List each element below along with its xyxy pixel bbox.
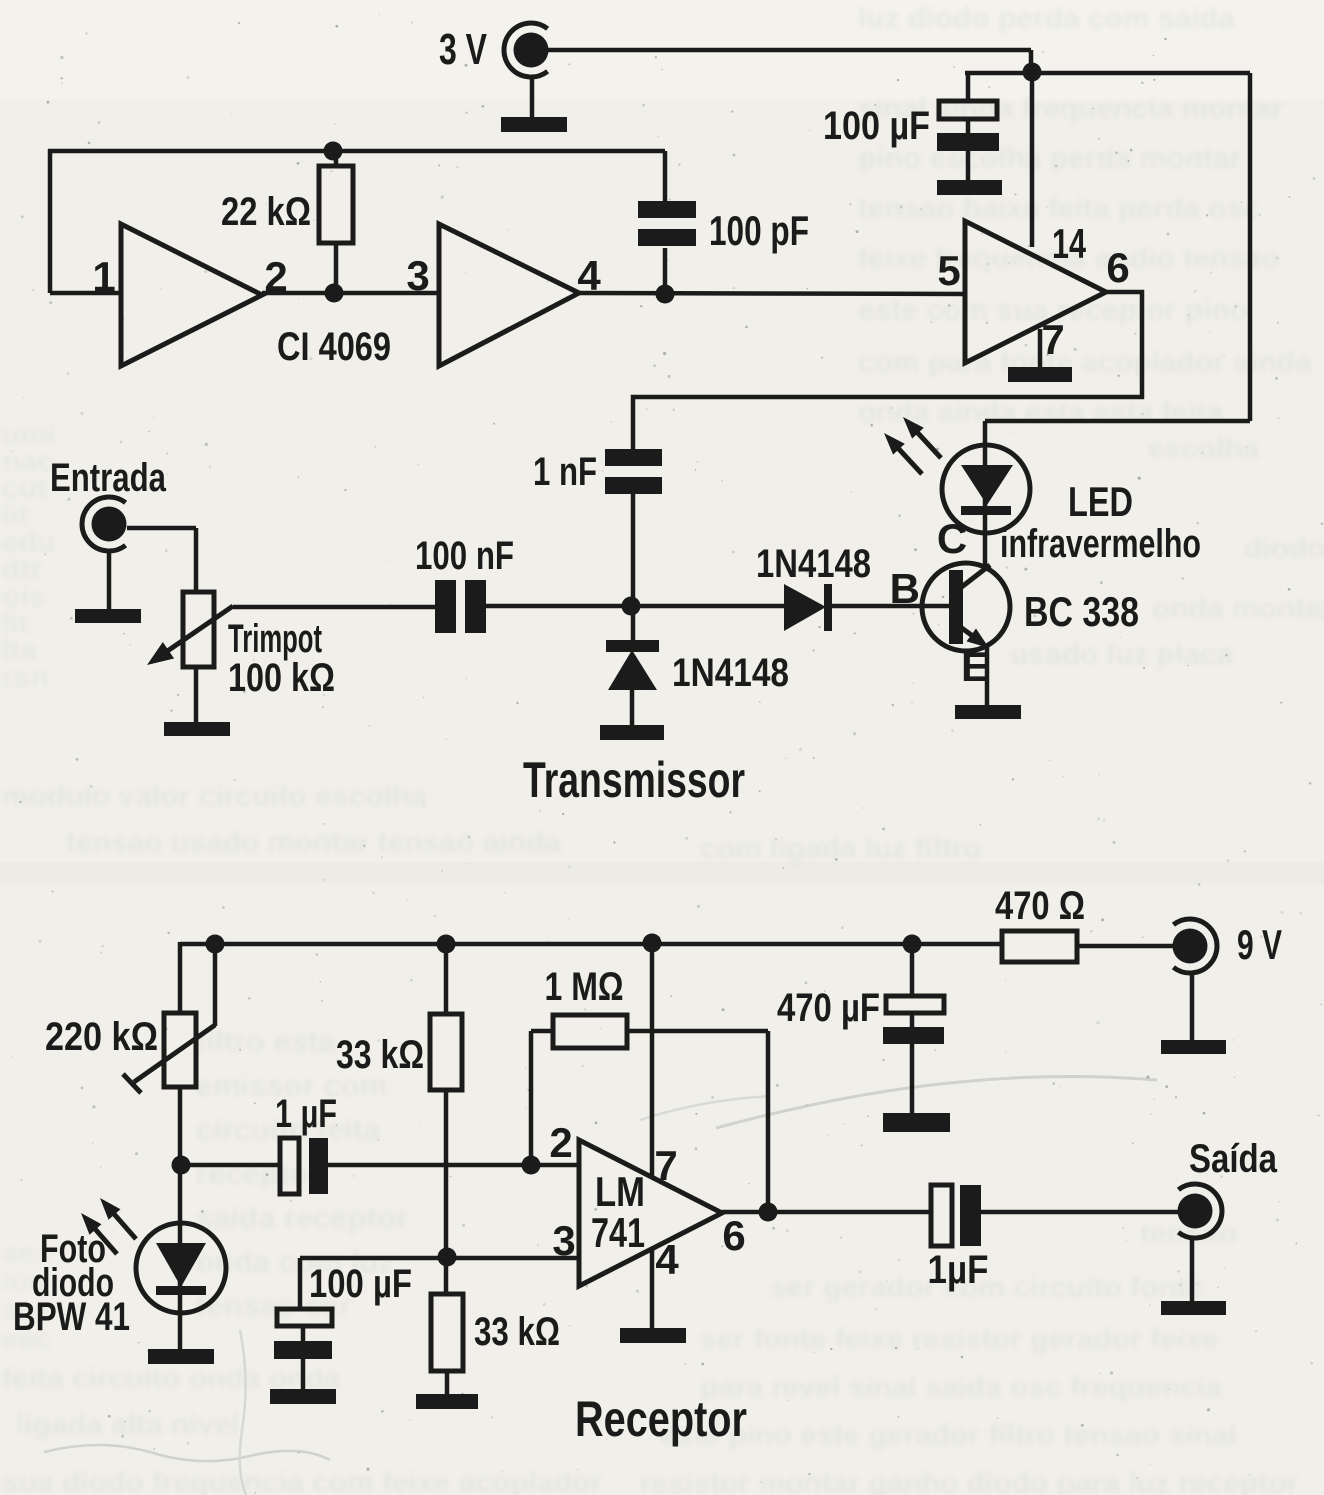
capacitor C6 100uF minus plate	[274, 1341, 332, 1359]
svg-text:luz diodo perda com saida: luz diodo perda com saida	[858, 2, 1235, 35]
svg-text:1 nF: 1 nF	[533, 450, 597, 494]
svg-text:6: 6	[1106, 244, 1129, 291]
wire C3 to node A	[631, 494, 636, 641]
svg-text:com ligada luz filtro: com ligada luz filtro	[700, 832, 982, 865]
wire Entrada ground lead	[107, 551, 112, 610]
label R4 value 33 kOhm	[474, 1310, 560, 1354]
wire C6 ground lead	[301, 1359, 306, 1390]
power connector 9V	[1173, 919, 1283, 973]
pin 5 label	[937, 247, 960, 294]
capacitor C4 100uF minus plate	[937, 133, 999, 151]
svg-text:9 V: 9 V	[1237, 921, 1282, 968]
LED D3 wire through	[983, 445, 988, 533]
svg-text:resistor montar ganho diodo pa: resistor montar ganho diodo para luz rec…	[640, 1467, 1299, 1495]
svg-text:filtro esta: filtro esta	[196, 1024, 336, 1059]
wire D2 to ground	[630, 690, 635, 726]
wire 3V to supply node	[548, 50, 1031, 73]
ground (Q1 emitter)	[955, 705, 1021, 719]
svg-text:1 MΩ: 1 MΩ	[545, 965, 624, 1009]
resistor R1 22k body	[319, 166, 353, 243]
trimpot P1 100k body	[183, 592, 214, 667]
wire Entrada to P1	[127, 528, 196, 594]
ground (P1)	[164, 722, 230, 736]
svg-text:14: 14	[1052, 220, 1086, 267]
LED D3 emission arrow 1	[903, 417, 941, 458]
LED D3 triangle	[961, 465, 1013, 505]
ground (C4)	[937, 180, 1002, 195]
caption Receptor	[575, 1391, 747, 1447]
wire R4 to ground	[445, 1371, 450, 1395]
diode D2 cathode bar	[606, 640, 659, 652]
label Q1 terminal E	[961, 643, 989, 690]
label P1 value 100 kOhm	[228, 656, 335, 700]
wire pin14 supply	[1030, 72, 1035, 247]
output connector Saida	[1178, 1137, 1278, 1238]
photodiode D4 triangle	[156, 1243, 206, 1287]
svg-text:220 kΩ: 220 kΩ	[45, 1015, 158, 1059]
wire C4 mid lead	[966, 119, 971, 134]
node photodiode junction	[172, 1156, 191, 1175]
power connector 3V	[439, 23, 549, 77]
label D1 1N4148	[756, 542, 871, 586]
label C6 value 100 uF	[309, 1262, 412, 1306]
wire C6 mid lead	[301, 1326, 306, 1342]
transistor Q1 emitter arrow	[959, 626, 989, 648]
wire oscillator top rail	[48, 149, 665, 154]
input connector Entrada	[50, 456, 167, 551]
wire pin7 supply (U2)	[650, 943, 655, 1177]
node A mixer junction	[622, 597, 641, 616]
pin 6 label (U2)	[722, 1212, 745, 1259]
label R5 value 1 MOhm	[545, 965, 624, 1009]
diode D1 1N4148 anode triangle	[784, 584, 826, 631]
ground (C6)	[270, 1389, 336, 1404]
wire rail to C2	[663, 151, 668, 204]
pin 14 label	[1052, 220, 1086, 267]
svg-text:1µF: 1µF	[928, 1248, 989, 1292]
LED D3 circle	[942, 445, 1030, 533]
wire LED anode lead	[983, 421, 988, 447]
inverter U1a CI4069	[121, 224, 262, 366]
node rail wiper junction	[206, 935, 225, 954]
capacitor C5 1uF plate B	[309, 1138, 328, 1194]
resistor R4 33k body	[431, 1294, 463, 1371]
wire U1a input feedback	[50, 149, 123, 293]
photodiode D4 circle	[136, 1223, 226, 1313]
ground (R4)	[416, 1394, 478, 1409]
capacitor C1 100nF plate B	[465, 580, 486, 633]
photodiode light arrow 1	[100, 1198, 136, 1239]
svg-text:2: 2	[549, 1119, 572, 1166]
svg-text:741: 741	[591, 1209, 645, 1256]
svg-text:sua diodo frequencia com feixe: sua diodo frequencia com feixe acoplador	[2, 1466, 602, 1495]
svg-text:infravermelho: infravermelho	[1000, 522, 1201, 566]
wire supply to C4 lead	[966, 73, 971, 103]
capacitor C2 100pF plate B	[638, 229, 696, 246]
svg-text:com para fonte acoplador ainda: com para fonte acoplador ainda	[858, 346, 1312, 379]
label R1 value 22 kOhm	[221, 190, 311, 234]
svg-text:33 kΩ: 33 kΩ	[336, 1033, 424, 1077]
ground (Saida)	[1161, 1301, 1226, 1315]
pin 6 label	[1106, 244, 1129, 291]
ground (pin 4 U2)	[620, 1328, 686, 1343]
pin 3 label (U2)	[552, 1217, 575, 1264]
svg-text:4: 4	[655, 1236, 679, 1283]
node supply junction	[1023, 63, 1042, 82]
wire rail to R2 220k	[178, 942, 183, 1015]
wire 100uF top lead	[298, 1258, 303, 1311]
wire Saida ground lead	[1190, 1238, 1195, 1302]
capacitor C7 470uF minus plate	[883, 1027, 944, 1044]
wire U1c output loop	[633, 292, 1142, 451]
wire U1b out to U1c in	[579, 293, 965, 294]
transistor Q1 collector stroke	[959, 533, 990, 589]
label C5 value 1 uF	[275, 1092, 337, 1136]
svg-text:100 pF: 100 pF	[709, 207, 809, 254]
pin 3 label	[406, 252, 429, 299]
wire C2 bottom lead	[663, 248, 668, 294]
label P1 Trimpot	[228, 617, 322, 661]
ground (C7)	[883, 1113, 950, 1132]
ground (pin 7)	[1008, 367, 1072, 382]
wire pin3 from divider	[300, 1256, 581, 1261]
svg-text:Receptor: Receptor	[575, 1391, 747, 1447]
wire supply horizontal	[965, 71, 1250, 76]
photodiode light arrow 2	[81, 1213, 117, 1254]
LED D3 cathode bar	[961, 506, 1011, 515]
wire R3 to R4	[444, 1090, 449, 1296]
svg-text:B: B	[890, 565, 920, 612]
wire C7 ground lead	[910, 1044, 915, 1114]
svg-text:ser fonte feixe resistor gerad: ser fonte feixe resistor gerador feixe	[700, 1323, 1219, 1356]
wire C4 ground lead	[966, 151, 971, 181]
svg-text:rsn: rsn	[2, 661, 49, 694]
node output junction	[759, 1203, 778, 1222]
svg-text:5: 5	[937, 247, 960, 294]
wire feedback left	[531, 1031, 555, 1165]
svg-text:diodo: diodo	[1244, 532, 1324, 565]
svg-text:CI 4069: CI 4069	[277, 325, 391, 369]
label LED infravermelho	[1000, 522, 1201, 566]
svg-text:33 kΩ: 33 kΩ	[474, 1310, 560, 1354]
capacitor C1 100nF plate A	[435, 580, 456, 633]
node rail-R1 junction	[324, 142, 343, 161]
svg-text:LED: LED	[1068, 478, 1133, 525]
svg-text:100 µF: 100 µF	[309, 1262, 412, 1306]
label C4 value 100 uF	[823, 104, 930, 148]
label Foto	[40, 1227, 106, 1271]
wire D1 to Q1 base	[832, 604, 951, 609]
svg-text:Entrada: Entrada	[50, 456, 167, 500]
label Q1 terminal C	[937, 515, 967, 562]
svg-text:tensao usado montar tensao ain: tensao usado montar tensao ainda	[66, 826, 561, 859]
svg-text:1 µF: 1 µF	[275, 1092, 337, 1136]
label U1 CI 4069	[277, 325, 391, 369]
pin 4 label (U2)	[655, 1236, 679, 1283]
wire pin4 ground lead (U2)	[650, 1249, 655, 1330]
capacitor C8 1uF plate B	[960, 1185, 981, 1246]
resistor R5 1M body	[553, 1015, 627, 1048]
svg-text:Saída: Saída	[1189, 1137, 1278, 1181]
inverter U1c CI4069	[965, 221, 1106, 363]
svg-text:1: 1	[92, 253, 115, 300]
ground (D2)	[600, 725, 664, 740]
capacitor C2 100pF plate A	[638, 201, 696, 218]
ground (3V)	[501, 117, 567, 132]
wire C5 to pin2	[328, 1163, 581, 1168]
capacitor C6 100uF plus plate	[277, 1309, 332, 1326]
svg-text:para nivel sinal saida osc fre: para nivel sinal saida osc frequencia	[700, 1371, 1222, 1404]
label Q1 terminal B	[890, 565, 920, 612]
wire node to C5	[181, 1163, 282, 1168]
wire rail to C7	[910, 944, 915, 998]
svg-text:ligada alta nivel: ligada alta nivel	[16, 1408, 239, 1441]
wire pin7 ground lead	[1038, 329, 1043, 368]
svg-text:onda montar: onda montar	[1152, 592, 1324, 625]
wire 9V ground lead	[1190, 973, 1195, 1041]
label C7 value 470 uF	[777, 986, 880, 1030]
transistor Q1 base bar	[949, 570, 963, 644]
svg-text:7: 7	[654, 1142, 677, 1189]
pin 4 label	[577, 252, 601, 299]
pin 7 label (U2)	[654, 1142, 677, 1189]
wire rail to R3	[444, 944, 449, 1016]
svg-text:Transmissor: Transmissor	[523, 752, 745, 808]
svg-text:6: 6	[722, 1212, 745, 1259]
wire R6 to 9V jack	[1077, 944, 1174, 949]
svg-text:1N4148: 1N4148	[672, 651, 789, 695]
label Q1 BC 338	[1024, 588, 1139, 635]
pin 2 label	[264, 253, 287, 300]
transistor Q1 BC338 circle	[922, 563, 1010, 651]
svg-text:100 µF: 100 µF	[823, 104, 930, 148]
svg-text:100 kΩ: 100 kΩ	[228, 656, 335, 700]
LED D3 emission arrow 2	[884, 433, 922, 474]
resistor R6 470 body	[1002, 931, 1077, 962]
pin 1 label	[92, 253, 115, 300]
label C8 value 1uF	[928, 1248, 989, 1292]
svg-text:escolha: escolha	[1148, 432, 1260, 465]
node rail pin7 junction	[643, 934, 662, 953]
wire Q1 emitter to ground	[985, 646, 990, 706]
wire P1 bottom to ground	[194, 667, 199, 723]
svg-text:3 V: 3 V	[439, 25, 487, 74]
svg-text:saida receptor: saida receptor	[196, 1200, 408, 1235]
svg-text:usado luz placa: usado luz placa	[1010, 638, 1234, 671]
svg-text:7: 7	[1041, 316, 1064, 363]
node C2 junction	[656, 285, 675, 304]
capacitor C4 100uF plus plate	[939, 101, 997, 119]
svg-text:470 Ω: 470 Ω	[995, 884, 1085, 928]
capacitor C3 1nF plate A	[605, 449, 662, 466]
label C3 value 1 nF	[533, 450, 597, 494]
label BPW 41	[13, 1295, 130, 1339]
wire R2 to photodiode node	[178, 1087, 183, 1351]
wire U1a out to U1b in	[262, 291, 441, 296]
label R2 value 220 kOhm	[45, 1015, 158, 1059]
trimpot R2 wiper	[123, 944, 215, 1093]
svg-text:modulo valor circuito escolha: modulo valor circuito escolha	[2, 780, 427, 813]
svg-text:LM: LM	[595, 1168, 645, 1215]
node feedback junction	[522, 1156, 541, 1175]
svg-text:Trimpot: Trimpot	[228, 617, 322, 661]
svg-text:22 kΩ: 22 kΩ	[221, 190, 311, 234]
node rail C7 junction	[903, 935, 922, 954]
ground (9V)	[1161, 1040, 1226, 1054]
wire C7 mid lead	[910, 1013, 915, 1028]
wire C8 to Saida jack	[981, 1210, 1178, 1215]
wire receiver supply rail	[180, 942, 1004, 947]
caption Transmissor	[523, 752, 745, 808]
photodiode D4 cathode bar	[156, 1286, 206, 1295]
label U2 LM	[595, 1168, 645, 1215]
svg-text:BC 338: BC 338	[1024, 588, 1139, 635]
pin 2 label (U2)	[549, 1119, 572, 1166]
label diodo	[32, 1261, 114, 1305]
trimpot P1 wiper arrow	[147, 606, 233, 665]
node R1-output junction	[325, 284, 344, 303]
label R6 value 470 Ohm	[995, 884, 1085, 928]
wire P1 wiper to C1	[233, 605, 437, 610]
svg-text:100 nF: 100 nF	[415, 534, 514, 578]
ground (photodiode)	[148, 1349, 214, 1364]
label C1 value 100 nF	[415, 534, 514, 578]
wire U2 output	[722, 1210, 933, 1215]
capacitor C3 1nF plate B	[605, 477, 662, 494]
svg-text:3: 3	[406, 252, 429, 299]
svg-text:470 µF: 470 µF	[777, 986, 880, 1030]
capacitor C7 470uF plus plate	[886, 996, 944, 1013]
op-amp U2 LM741 triangle	[579, 1140, 722, 1286]
svg-text:E: E	[961, 643, 989, 690]
pin 7 label	[1041, 316, 1064, 363]
node pin3 junction	[438, 1248, 457, 1267]
inverter U1b CI4069	[439, 224, 579, 366]
label U2 741	[591, 1209, 645, 1256]
wire C1 to node A	[486, 604, 788, 609]
label C2 value 100 pF	[709, 207, 809, 254]
resistor R2 220k body	[164, 1013, 196, 1087]
ground (Entrada)	[75, 609, 141, 623]
diode D1 cathode bar	[824, 584, 832, 631]
svg-text:1N4148: 1N4148	[756, 542, 871, 586]
diode D2 1N4148 triangle	[608, 650, 657, 690]
capacitor C5 1uF plate A	[280, 1138, 299, 1194]
wire feedback right	[627, 1031, 768, 1212]
svg-text:C: C	[937, 515, 967, 562]
svg-text:BPW 41: BPW 41	[13, 1295, 130, 1339]
wire R1 bottom lead	[334, 242, 339, 293]
label D2 1N4148	[672, 651, 789, 695]
label R3 value 33 kOhm	[336, 1033, 424, 1077]
label LED	[1068, 478, 1133, 525]
resistor R3 33k body	[430, 1014, 462, 1090]
wire R1 top lead	[334, 151, 339, 168]
wire right vertical feed to LED	[985, 73, 1250, 421]
capacitor C8 1uF plate A	[931, 1185, 952, 1246]
node rail R3 junction	[437, 935, 456, 954]
wire 3V ground lead	[530, 77, 535, 117]
